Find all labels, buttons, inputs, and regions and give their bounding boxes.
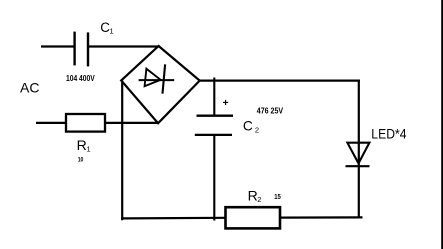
capacitor C1 — [75, 32, 88, 67]
svg-text:C: C — [243, 119, 253, 134]
wire AC top lead to C1 — [41, 45, 75, 47]
capacitor C2 top plate — [197, 115, 234, 117]
wire AC bottom lead to R1 — [36, 122, 66, 124]
svg-text:15: 15 — [274, 192, 281, 201]
diode inside bridge: cathode bar — [163, 64, 166, 93]
svg-text:10: 10 — [78, 157, 84, 164]
wire bottom rail left section — [121, 217, 225, 220]
wire bridge right vertex to top-right corner — [199, 79, 360, 81]
svg-text:2: 2 — [257, 195, 261, 204]
svg-text:476 25V: 476 25V — [257, 106, 284, 115]
resistor R2 — [226, 207, 281, 228]
svg-text:1: 1 — [110, 27, 114, 36]
wire R1 to bridge bottom vertex — [105, 122, 159, 124]
svg-text:LED*4: LED*4 — [371, 126, 406, 142]
capacitor C2 top lead — [213, 78, 215, 116]
LED D1 cathode bar — [346, 165, 370, 167]
wire C1 to bridge top vertex — [89, 45, 159, 47]
capacitor C2 bottom plate — [195, 134, 232, 136]
svg-text:1: 1 — [87, 145, 91, 154]
wire LED branch vertical — [358, 81, 360, 218]
capacitor C2 bottom lead — [213, 136, 215, 221]
wire bottom rail right section — [280, 216, 363, 218]
svg-text:R: R — [77, 137, 87, 153]
svg-text:2: 2 — [255, 126, 259, 135]
frame right border — [441, 0, 443, 249]
wire bridge left vertex down to bottom rail — [121, 81, 123, 221]
svg-text:104 400V: 104 400V — [66, 74, 95, 83]
diode inside bridge: horizontal lead — [139, 79, 175, 81]
svg-text:AC: AC — [20, 80, 39, 96]
LED D1 triangle — [347, 143, 369, 164]
resistor R1 — [66, 114, 105, 132]
diode inside bridge: triangle — [145, 69, 161, 87]
bridge rectifier outline — [121, 46, 200, 123]
svg-text:+: + — [223, 97, 229, 109]
